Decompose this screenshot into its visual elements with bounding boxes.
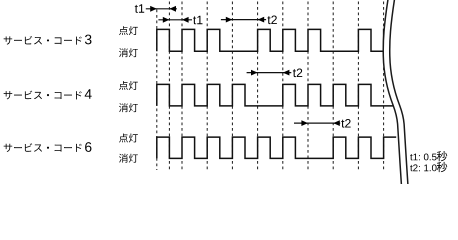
- dimension t2 (top right): [221, 15, 277, 24]
- OFF label waveform 4: [119, 103, 138, 112]
- gridline tick 4 (t2 grid): [206, 2, 208, 171]
- dimension t1 (on-time, top row): [135, 4, 177, 12]
- gridline tick 6 (t2 grid): [231, 2, 233, 171]
- gridline tick 16 (t2 grid): [357, 2, 359, 171]
- OFF label waveform 3: [119, 48, 138, 57]
- dimension t2 (waveform 6): [294, 119, 351, 128]
- legend t1: 0.5s: [410, 151, 447, 161]
- break mark white gap: [383, 0, 408, 186]
- break mark curve 2: [390, 0, 408, 186]
- label service code 6: [4, 142, 92, 152]
- break mark curve 1: [383, 0, 401, 186]
- waveform service code 3: [157, 29, 387, 51]
- OFF label waveform 6: [119, 154, 138, 163]
- gridline tick 18 (t2 grid): [383, 2, 385, 171]
- gridline tick 10 (t2 grid): [282, 2, 284, 171]
- legend t2: 1.0s: [410, 162, 447, 172]
- label service code 4: [4, 89, 92, 99]
- ON label waveform 3 (point): [119, 26, 138, 35]
- ON label waveform 4: [119, 81, 138, 90]
- gridline tick 1 (t1 grid): [168, 2, 170, 171]
- dimension t1 (off-time, second row): [158, 16, 202, 24]
- label service code 3: [4, 35, 92, 45]
- waveform service code 6: [157, 137, 396, 158]
- ON label waveform 6: [119, 133, 138, 142]
- dimension t2 (middle, waveform 4): [247, 68, 303, 77]
- gridline tick 14 (t2 grid): [332, 2, 334, 171]
- gridline tick 0 (t1 grid): [156, 10, 158, 171]
- gridline tick 8 (t2 grid): [257, 2, 259, 171]
- waveform service code 4: [157, 84, 394, 106]
- gridline tick 2 (t1 grid): [181, 2, 183, 171]
- gridline tick 12 (t2 grid): [307, 2, 309, 171]
